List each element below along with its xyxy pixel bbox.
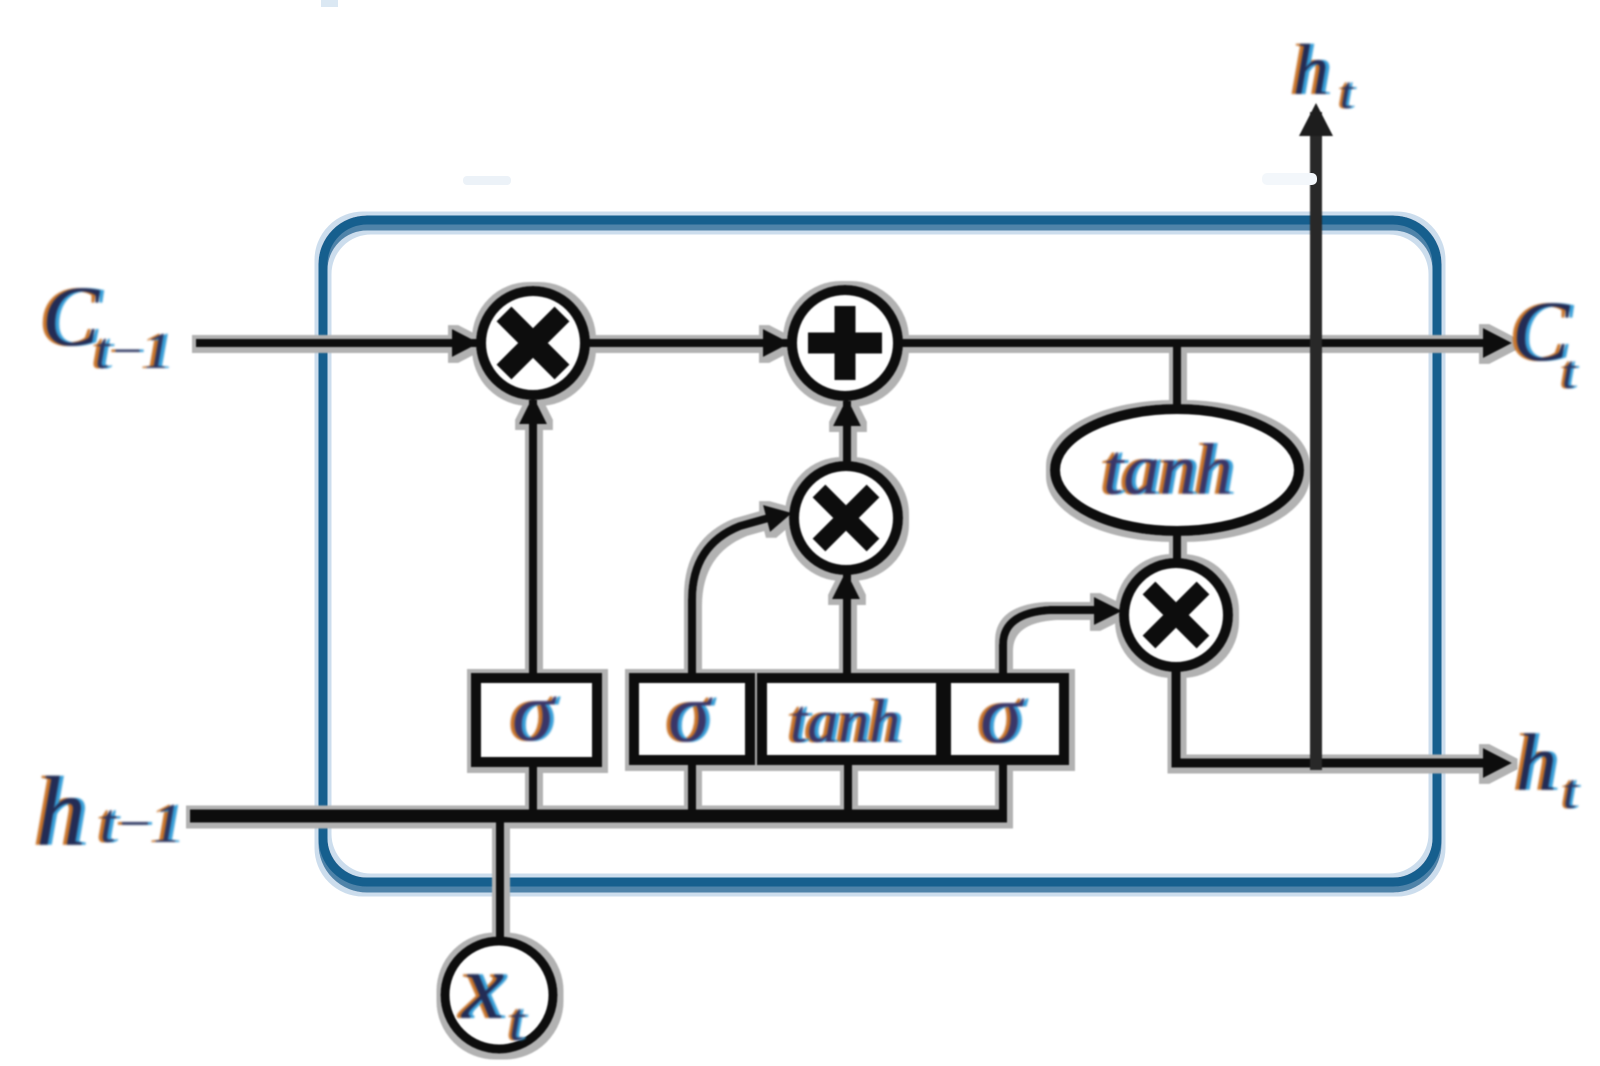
- wire C line: [196, 339, 1500, 347]
- label sigma1: [508, 665, 561, 759]
- wire sigma3 stub: [999, 758, 1007, 814]
- wire h t-1 line: [190, 810, 1007, 823]
- arrow up into multiply1: [519, 396, 547, 424]
- arrow out Ct: [1483, 328, 1512, 358]
- svg-text:t: t: [1563, 763, 1578, 819]
- svg-text:t: t: [509, 991, 526, 1052]
- gate box sigma3: [946, 678, 1064, 760]
- label Ct-1: [38, 268, 175, 380]
- artifact dash: [463, 176, 511, 185]
- artifact smudge top left: [321, 0, 338, 7]
- wire tanh branch: [1173, 343, 1181, 412]
- gate box sigma1: [476, 678, 597, 762]
- wire multiply3 down and h out: [1176, 665, 1500, 763]
- wire xt riser: [496, 816, 504, 942]
- svg-text:t: t: [1562, 346, 1577, 399]
- svg-text:t: t: [1340, 67, 1354, 118]
- arrow out ht right: [1483, 748, 1512, 778]
- svg-text:h: h: [1516, 717, 1557, 808]
- multiply node 2: [794, 466, 898, 570]
- label xt: [456, 933, 529, 1052]
- arrow into add: [763, 329, 790, 357]
- arrow up ht: [1299, 103, 1333, 136]
- wire tanhgate stub: [844, 758, 852, 812]
- label tanh ellipse: [1099, 429, 1237, 510]
- multiply node 3: [1124, 563, 1228, 667]
- svg-text:h: h: [1293, 30, 1329, 110]
- cell boundary box: [323, 220, 1437, 888]
- label ht-1: [32, 756, 185, 867]
- multiply node 1: [481, 291, 585, 395]
- arrow into multiply2 left: [763, 505, 792, 532]
- add node: [792, 290, 898, 396]
- svg-text:tanh: tanh: [790, 688, 900, 756]
- svg-text:tanh: tanh: [1103, 429, 1233, 510]
- gate box tanh: [762, 678, 941, 760]
- label ht right: [1512, 717, 1581, 819]
- gate box sigma2: [634, 678, 750, 760]
- wire tanh to multiply3: [1173, 528, 1181, 566]
- artifact smear right: [1262, 173, 1317, 185]
- arrow up into multiply2: [832, 571, 860, 599]
- wire sigma2 curve: [692, 517, 772, 680]
- svg-text:x: x: [460, 933, 504, 1039]
- svg-text:t−1: t−1: [100, 793, 181, 855]
- label sigma3: [976, 667, 1029, 761]
- label ht top: [1289, 30, 1357, 118]
- svg-text:σ: σ: [668, 666, 713, 760]
- tanh ellipse: [1055, 409, 1299, 531]
- svg-text:σ: σ: [980, 667, 1025, 761]
- xt circle: [445, 941, 553, 1049]
- arrow into multiply3 left: [1094, 597, 1122, 625]
- svg-text:σ: σ: [512, 665, 557, 759]
- wire sigma2 stub: [688, 758, 696, 812]
- svg-text:h: h: [36, 756, 86, 867]
- label tanh gate: [786, 688, 904, 756]
- wire sigma3 curve: [1003, 610, 1095, 678]
- wire multiply2 to add: [843, 401, 851, 467]
- arrow into multiply1: [452, 329, 479, 357]
- label sigma2: [664, 666, 717, 760]
- wire sigma1 stub: [529, 760, 537, 812]
- wire tanhgate riser: [843, 574, 851, 680]
- wire sigma1 riser: [529, 400, 537, 680]
- label Ct right: [1508, 283, 1580, 399]
- wire ht vertical: [1299, 103, 1333, 770]
- arrow up into add: [833, 398, 861, 426]
- svg-text:t−1: t−1: [95, 323, 171, 380]
